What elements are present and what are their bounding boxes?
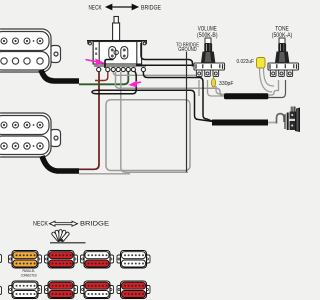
svg-text:NECK: NECK xyxy=(89,5,103,12)
svg-text:0.022uF: 0.022uF xyxy=(237,59,255,65)
svg-text:CONNECTED: CONNECTED xyxy=(21,273,37,277)
svg-text:VOLUME: VOLUME xyxy=(198,25,217,32)
svg-text:NECK: NECK xyxy=(33,221,49,228)
svg-text:BRIDGE: BRIDGE xyxy=(141,5,161,12)
svg-text:330pF: 330pF xyxy=(219,81,234,87)
svg-text:BRIDGE: BRIDGE xyxy=(80,221,109,228)
svg-text:TONE: TONE xyxy=(275,25,289,32)
svg-text:GROUND: GROUND xyxy=(178,47,197,53)
